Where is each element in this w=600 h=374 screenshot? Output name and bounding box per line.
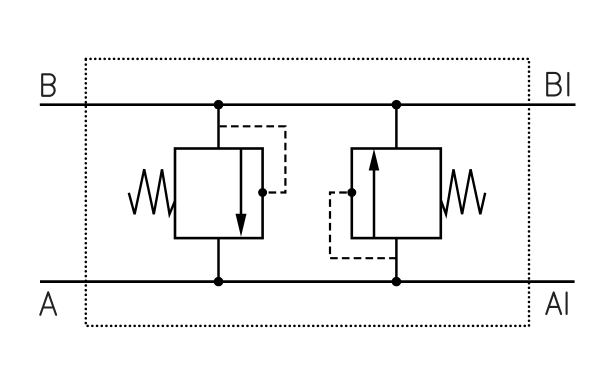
node B-V1 junction [214, 100, 224, 110]
V1 internal flow line [240, 149, 243, 219]
enclosure dotted boundary [86, 59, 529, 326]
node V2 pilot junction [347, 188, 356, 197]
V2 pilot line (dashed) [330, 193, 396, 259]
relief valve V2 body (right) [352, 149, 441, 239]
label AI [546, 293, 566, 315]
V2 flow arrow (up) [369, 149, 380, 171]
wire port B rail (top) [40, 103, 576, 106]
label BI [547, 73, 568, 96]
node A-V2 junction [392, 277, 402, 287]
V1 pilot line (dashed) [220, 126, 286, 192]
V2 internal flow line [373, 168, 376, 238]
V1 flow arrow (down) [236, 214, 247, 237]
node B-V2 junction [392, 100, 402, 110]
node A-V1 junction [214, 277, 224, 287]
wire V1 bottom connection [217, 238, 220, 282]
spring V1 (left) [129, 169, 175, 214]
label A [40, 292, 56, 315]
relief valve V1 body (left) [175, 149, 263, 239]
label B [42, 74, 55, 96]
wire port A rail (bottom) [40, 280, 575, 283]
wire V2 bottom connection [395, 238, 398, 282]
node V1 pilot junction [258, 188, 267, 197]
spring V2 (right) [441, 169, 485, 214]
wire V1 top connection [217, 105, 220, 149]
wire V2 top connection [395, 105, 398, 149]
